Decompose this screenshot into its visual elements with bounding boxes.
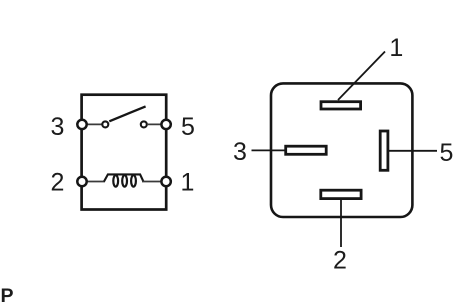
svg-text:1: 1: [181, 168, 195, 196]
terminal pin 2 circle: [77, 177, 86, 186]
terminal pin 5 circle: [161, 120, 170, 129]
wire: pin 3 terminal to switch pivot: [84, 123, 104, 125]
terminal pin 3 circle: [77, 120, 86, 129]
wire: fixed contact to pin 5 terminal: [147, 123, 164, 125]
switch pivot contact circle: [102, 121, 108, 127]
svg-text:2: 2: [333, 247, 347, 275]
wire: pin 2 terminal to coil: [84, 181, 105, 183]
terminal pin 1 circle: [161, 177, 170, 186]
leader line to pin 5: [389, 150, 437, 152]
terminal slot 2 (bottom): [321, 190, 361, 198]
switch fixed contact circle: [141, 121, 147, 127]
relay connector body (pin-face view): [271, 83, 412, 217]
leader line to pin 2: [340, 200, 342, 248]
svg-text:3: 3: [51, 113, 65, 141]
terminal slot 5 (right, vertical): [380, 131, 388, 170]
switch arm (open contact): [109, 106, 145, 121]
leader line to pin 3: [252, 149, 286, 151]
svg-text:2: 2: [51, 168, 65, 196]
svg-text:1: 1: [389, 34, 403, 62]
svg-text:3: 3: [233, 138, 247, 166]
svg-text:5: 5: [439, 139, 453, 167]
svg-text:P: P: [1, 285, 14, 304]
leader line to pin 1: [338, 52, 385, 101]
relay coil: [104, 174, 143, 186]
terminal slot 3 (left): [286, 146, 327, 154]
wire: coil to pin 1 terminal: [142, 181, 164, 183]
relay case outline (schematic box): [82, 95, 167, 210]
svg-text:5: 5: [181, 113, 195, 141]
terminal slot 1 (top): [321, 102, 361, 109]
